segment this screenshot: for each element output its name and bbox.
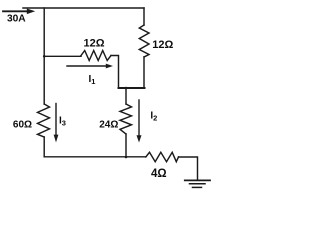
resistor 4ohm (bottom horizontal zigzag) [146,152,179,161]
wire top horizontal [23,7,144,9]
svg-text:60Ω: 60Ω [13,119,32,130]
arrow I3 shaft [55,104,57,136]
arrow I1 shaft [67,65,107,67]
junction dot 24ohm top [125,87,128,90]
arrowhead I1 [106,64,113,69]
svg-text:24Ω: 24Ω [99,120,118,131]
svg-text:I1: I1 [89,74,96,86]
wire below 24ohm [125,134,127,157]
wire middle branch to 12ohm horizontal [44,55,81,57]
resistor 60ohm (left vertical zigzag) [38,104,50,137]
junction dot 24ohm bottom [125,156,128,159]
arrowhead 30A [27,9,35,15]
wire below 60ohm [43,137,45,157]
wire right vertical lower [143,57,145,88]
wire junction horizontal [119,87,145,89]
resistor 12ohm (right vertical zigzag) [139,25,149,57]
arrowhead I3 [54,135,59,143]
svg-text:4Ω: 4Ω [151,168,167,180]
svg-text:12Ω: 12Ω [83,38,104,50]
wire right vertical top [143,8,145,25]
resistor 24ohm (middle vertical zigzag) [120,104,132,134]
wire bottom horizontal [44,156,146,158]
ground bar 2 [190,183,206,185]
arrow I2 shaft [138,100,140,136]
wire 24ohm top stub [125,88,127,104]
arrowhead I2 [137,135,142,142]
ground bar 3 [193,186,202,188]
junction dot left [43,55,46,58]
wire left vertical [43,8,45,104]
svg-text:12Ω: 12Ω [152,39,173,51]
wire bottom right to ground [179,157,198,180]
svg-text:I2: I2 [150,111,157,123]
svg-text:I3: I3 [59,116,66,128]
arrow 30A shaft [3,10,28,12]
ground bar 1 [185,179,210,181]
svg-text:30A: 30A [7,13,26,24]
resistor 12ohm horizontal zigzag [81,51,111,61]
wire from 12ohm to middle corner [111,56,119,89]
